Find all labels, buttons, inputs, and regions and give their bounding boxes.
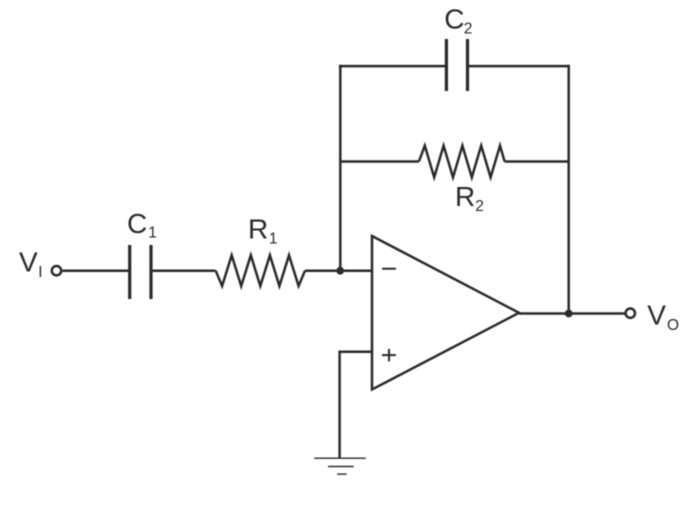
pin label plus [382,349,396,361]
pin label minus [382,268,396,270]
svg-text:2: 2 [475,198,484,215]
svg-text:C: C [444,3,464,34]
wire [153,269,216,272]
svg-text:I: I [38,264,42,281]
svg-text:R: R [455,181,475,212]
resistor R2 [419,146,505,178]
wire [519,312,626,315]
svg-text:1: 1 [148,225,157,242]
op-amp U1 [372,236,519,390]
wire [567,65,570,314]
svg-text:V: V [647,299,666,330]
wire [62,269,129,272]
svg-text:C: C [127,208,147,239]
node B [565,310,573,318]
capacitor C1 [130,245,151,299]
resistor R1 [216,255,305,286]
wire [339,65,342,271]
wire [340,352,372,458]
ground [314,458,365,474]
node A [336,267,344,275]
capacitor C2 [446,39,467,91]
terminal Vi [52,266,61,275]
wire [305,269,372,272]
wire [339,65,446,68]
svg-text:O: O [667,317,679,334]
svg-text:1: 1 [269,230,278,247]
svg-text:2: 2 [464,20,473,37]
svg-text:V: V [19,247,38,278]
wire [505,160,569,163]
wire [339,160,419,163]
wire [468,65,570,68]
terminal Vo [626,309,635,318]
svg-text:R: R [248,214,268,245]
